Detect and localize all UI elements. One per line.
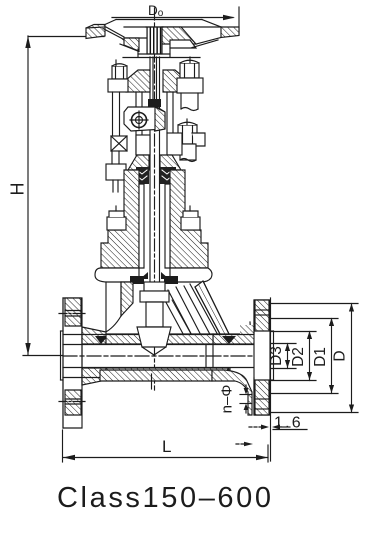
body neck left — [104, 282, 133, 333]
right bolt 2 — [178, 119, 205, 162]
svg-text:L: L — [162, 437, 171, 456]
gland eyebolt box left — [136, 135, 150, 155]
stem — [150, 57, 160, 292]
dimension D1 — [271, 318, 338, 394]
svg-text:Class150–600: Class150–600 — [57, 482, 274, 514]
svg-text:H: H — [8, 183, 28, 196]
left yoke bolt washer — [108, 79, 128, 92]
left bolt X-box — [111, 136, 127, 151]
weld triangles left — [95, 336, 114, 377]
right flange plate — [254, 298, 271, 461]
handwheel center plate — [105, 20, 221, 39]
pipe walls — [63, 334, 254, 378]
svg-text:D3: D3 — [268, 346, 285, 366]
left bolt lower nut — [106, 151, 126, 192]
body bottom — [100, 370, 252, 415]
dimension n-phi arrows — [240, 385, 252, 413]
bonnet wall right — [170, 170, 208, 268]
dimension 1.6 arrows — [249, 425, 307, 430]
clamp circle — [130, 111, 148, 129]
left flange bottom bolt section — [59, 390, 86, 415]
left bolt shank — [113, 60, 120, 136]
packing right — [160, 167, 176, 184]
gland follower right — [160, 155, 181, 170]
plug body — [137, 302, 171, 355]
left step nut — [107, 206, 126, 230]
left flange plate — [61, 298, 83, 428]
gland eyebolt box right — [167, 133, 182, 155]
pipe centerline — [63, 355, 271, 357]
body chamber surface lines — [162, 284, 219, 343]
raised face right — [270, 331, 274, 380]
svg-text:1.6: 1.6 — [274, 415, 303, 432]
center axis line — [154, 8, 156, 390]
svg-text:D2: D2 — [290, 347, 307, 367]
svg-text:D: D — [332, 350, 349, 361]
handwheel dish left slope — [103, 27, 139, 52]
seat ring — [206, 325, 254, 368]
left hub — [82, 327, 106, 385]
body flange lobe left — [95, 268, 139, 282]
dimension D — [271, 304, 358, 413]
stem nut above hub — [138, 27, 170, 54]
yoke arm left — [126, 70, 150, 92]
plug collar — [140, 272, 169, 302]
yoke arm right — [163, 70, 187, 92]
left flange top bolt section — [59, 298, 86, 326]
handwheel right rim — [221, 27, 239, 38]
right yoke bolt — [177, 57, 203, 111]
packing left — [136, 167, 149, 184]
gasket dark marks — [130, 276, 178, 284]
bonnet inner bores — [139, 184, 170, 268]
svg-text:Do: Do — [148, 3, 164, 19]
stem dark collar — [148, 99, 161, 107]
handwheel web section right — [162, 27, 221, 48]
hub base — [123, 48, 200, 58]
left yoke bolt head — [112, 64, 127, 79]
dimension L — [63, 430, 269, 462]
dimension D3 — [271, 343, 296, 369]
handwheel web section left — [124, 38, 139, 51]
body flange lobe right — [170, 268, 212, 282]
svg-text:D1: D1 — [312, 347, 329, 367]
handwheel left rim — [86, 25, 105, 39]
right flange top bolt section — [255, 300, 269, 331]
right step nut — [181, 206, 200, 230]
weld triangles right — [220, 336, 236, 378]
gland follower left — [128, 155, 149, 170]
right flange bottom bolt section — [255, 380, 269, 415]
dimension D2 — [271, 331, 316, 381]
dimension H line — [23, 36, 104, 356]
svg-text:n–Φ: n–Φ — [219, 385, 236, 414]
bonnet wall left — [101, 170, 139, 268]
dimension Do line — [112, 7, 239, 35]
body neck right cone — [195, 281, 254, 344]
clamp eyebolt — [124, 107, 165, 131]
yoke legs — [136, 92, 173, 155]
